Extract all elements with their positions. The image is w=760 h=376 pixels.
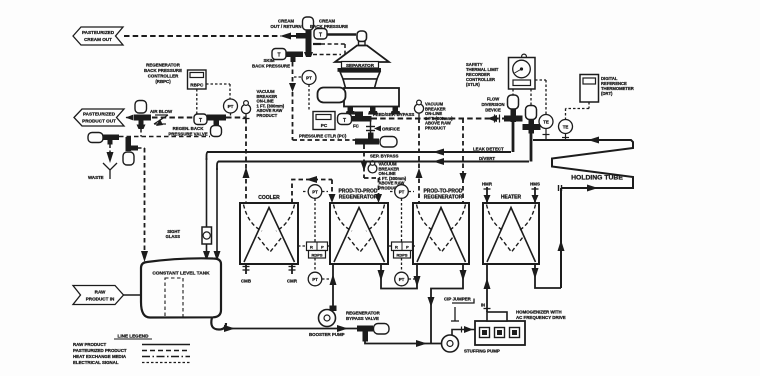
svg-text:HEATER: HEATER — [501, 195, 522, 201]
instrument PT (skim pressure) — [294, 71, 316, 112]
instrument PT bottom (regen1/regen2) — [395, 258, 415, 286]
svg-text:REGENERATOR: REGENERATOR — [346, 311, 381, 316]
funnel waste — [103, 163, 117, 179]
homogenizer — [475, 312, 525, 345]
wire stuffing pump to homogenizer — [452, 326, 475, 336]
svg-text:REGENERATOR: REGENERATOR — [339, 195, 378, 201]
svg-text:BACK PRESSURE: BACK PRESSURE — [252, 64, 290, 69]
svg-text:PRESSURE CTLR (PC): PRESSURE CTLR (PC) — [299, 134, 347, 139]
wire bypass to stuffing pump — [365, 340, 441, 347]
label SKIM BACK PRESSURE — [252, 58, 290, 69]
svg-text:AC FREQUENCY DRIVE: AC FREQUENCY DRIVE — [516, 315, 566, 320]
valve waste 2 (divert to tank) — [123, 137, 138, 165]
wire cooler top-right to regen1 top-left — [292, 176, 336, 203]
wire skim line down (to sep bypass) — [289, 62, 355, 140]
holding tube — [533, 137, 633, 192]
controller STLR box — [509, 54, 536, 89]
svg-text:HMS: HMS — [530, 182, 540, 187]
valve cream back pressure — [296, 17, 314, 57]
svg-text:R: R — [395, 245, 398, 250]
svg-text:HOLDING TUBE: HOLDING TUBE — [571, 175, 623, 182]
wire raw product into tank — [124, 294, 142, 296]
svg-text:PASTEURIZED: PASTEURIZED — [82, 30, 115, 35]
svg-text:CMB: CMB — [241, 279, 251, 284]
svg-text:CONTROLLER: CONTROLLER — [148, 74, 179, 79]
svg-text:RBPC: RBPC — [190, 83, 204, 88]
label CREAM BACK PRESSURE — [310, 19, 348, 30]
label DIGITAL REFERENCE THERMOMETER (DRT) — [601, 76, 634, 96]
wire pasteurized down to regen2 top-left — [416, 119, 423, 203]
separator cone — [335, 46, 389, 63]
svg-text:CONSTANT LEVEL TANK: CONSTANT LEVEL TANK — [152, 271, 210, 277]
svg-text:T: T — [343, 118, 346, 124]
wire cream valve to separator cap — [327, 33, 356, 36]
svg-text:T: T — [319, 33, 322, 39]
svg-text:R: R — [310, 245, 313, 250]
sensor tag T (cream) — [314, 29, 327, 40]
svg-text:WASTE: WASTE — [88, 175, 104, 180]
legend LINE LEGEND — [73, 334, 190, 366]
label VACUUM BREAKER ON-LINE (middle) — [379, 162, 407, 191]
svg-text:PRODUCT: PRODUCT — [257, 113, 278, 118]
sight glass — [202, 227, 212, 244]
svg-text:PT: PT — [399, 190, 405, 195]
wire pasteurized cream line — [124, 33, 297, 40]
instrument TE 2 — [559, 120, 573, 140]
instrument PT top (regen1/regen2) — [390, 185, 414, 242]
heat exchanger COOLER — [240, 203, 298, 264]
svg-text:BACK PRESSURE: BACK PRESSURE — [144, 68, 182, 73]
svg-text:SEP. BYPASS: SEP. BYPASS — [370, 154, 398, 159]
wire tank outlet to booster pump — [224, 325, 358, 332]
valve FDD divert — [504, 95, 523, 122]
node CIP jumper stub — [451, 299, 474, 322]
svg-text:(RBPC): (RBPC) — [155, 79, 171, 84]
svg-text:DEVICE: DEVICE — [485, 108, 501, 113]
instrument TE 1 — [539, 115, 553, 140]
label VACUUM BREAKER ON-LINE (right) — [425, 102, 453, 131]
svg-text:BYPASS VALVE: BYPASS VALVE — [346, 316, 379, 321]
svg-text:DIVERSION: DIVERSION — [481, 102, 504, 107]
svg-text:STUFFING PUMP: STUFFING PUMP — [464, 349, 500, 354]
svg-text:TE: TE — [543, 120, 549, 125]
tank constant level — [141, 258, 226, 329]
banner PASTEURIZED PRODUCT OUT — [74, 109, 124, 126]
svg-text:TE: TE — [563, 125, 569, 130]
node HMR stub — [482, 182, 493, 204]
wire FDD divert drop — [512, 121, 515, 152]
controller PC box — [313, 112, 335, 130]
vacuum breaker (sep bypass) — [368, 161, 377, 173]
separator motor — [318, 88, 346, 103]
label FLOW DIVERSION DEVICE — [481, 97, 504, 113]
wire cooler top-left riser (pasteurized out) — [243, 119, 250, 203]
valve regenerator bypass — [357, 324, 389, 342]
banner RAW PRODUCT IN — [73, 286, 124, 305]
wire cream return dashed into separator — [313, 44, 345, 58]
separator frame — [344, 88, 399, 107]
svg-text:PRODUCT OUT: PRODUCT OUT — [82, 119, 116, 124]
svg-text:D/VERT: D/VERT — [479, 156, 495, 161]
wire heater outlet to holding tube — [558, 188, 565, 288]
svg-text:CMR: CMR — [287, 279, 298, 284]
svg-text:PT: PT — [312, 277, 318, 282]
valve regen back pressure — [207, 115, 226, 137]
svg-text:HEAT EXCHANGE MEDIA: HEAT EXCHANGE MEDIA — [73, 354, 127, 359]
wire sep bypass down to regenerator — [361, 145, 383, 204]
svg-text:GLASS: GLASS — [166, 234, 181, 239]
heat exchanger HEATER — [483, 203, 539, 264]
svg-text:P: P — [321, 245, 324, 250]
label REGEN. BACK PRESSURE VALVE — [168, 126, 207, 137]
label REGENERATOR BYPASS VALVE — [346, 311, 381, 322]
svg-text:REGENERATOR: REGENERATOR — [146, 63, 181, 68]
pump booster — [319, 310, 336, 327]
svg-text:BACK PRESSURE: BACK PRESSURE — [310, 24, 348, 29]
node CMR stub — [287, 264, 298, 284]
separator flange band — [338, 68, 382, 72]
wire waste drain with arrow — [107, 145, 114, 164]
wire divert line — [217, 158, 529, 170]
valve skim back pressure tee — [286, 52, 303, 63]
label SIGHT GLASS — [166, 229, 181, 239]
svg-text:PT: PT — [228, 104, 234, 109]
wire heater bottom-left from homogenizer — [481, 264, 491, 312]
heat exchanger PROD-TO-PROD REGENERATOR 2 — [413, 203, 469, 264]
svg-text:P: P — [406, 245, 409, 250]
wire regen1 bottom-left to booster pump — [330, 264, 337, 311]
svg-text:PRODUCT: PRODUCT — [425, 126, 446, 131]
svg-text:(DRT): (DRT) — [601, 91, 613, 96]
wire pasteurized down to regen2 top-right — [460, 119, 467, 203]
svg-text:PASTEURIZED: PASTEURIZED — [83, 112, 116, 117]
svg-text:FC: FC — [353, 124, 360, 129]
svg-text:PASTEURIZED PRODUCT: PASTEURIZED PRODUCT — [73, 348, 127, 353]
svg-text:BOOSTER PUMP: BOOSTER PUMP — [309, 332, 345, 337]
wire RBPC electrical signals — [197, 84, 230, 114]
svg-text:PT: PT — [306, 76, 312, 81]
svg-text:REGENERATOR: REGENERATOR — [424, 195, 463, 201]
svg-text:REGEN. BACK: REGEN. BACK — [173, 126, 205, 131]
meter DRT box — [580, 75, 599, 103]
instrument PT bottom (cooler/regen1) — [308, 258, 330, 286]
svg-text:RDPS: RDPS — [396, 253, 407, 258]
valve waste 1 — [88, 133, 119, 145]
svg-text:COOLER: COOLER — [258, 195, 280, 201]
valve FDD forward — [523, 106, 541, 134]
label HOMOGENIZER WITH AC FREQUENCY DRIVE — [516, 310, 566, 321]
svg-text:SEPARATOR: SEPARATOR — [346, 63, 375, 68]
label PROD-TO-PROD REGENERATOR 1 — [338, 189, 377, 201]
valve sep bypass — [355, 133, 397, 148]
svg-text:ELECTRICAL SIGNAL: ELECTRICAL SIGNAL — [73, 360, 119, 365]
switch RDPS 2 — [389, 242, 415, 258]
svg-text:AIR BLOW: AIR BLOW — [150, 109, 173, 114]
valve air blow — [134, 101, 151, 130]
svg-text:RAW: RAW — [95, 290, 106, 295]
wire waste2 to constant level tank — [138, 148, 148, 262]
wire leak detect drop to sight glass — [203, 158, 210, 261]
separator shoulders and body — [340, 72, 380, 88]
svg-text:IN: IN — [481, 303, 485, 308]
instrument PT (regen back pressure) — [224, 99, 238, 119]
svg-text:PT: PT — [399, 277, 405, 282]
vacuum breaker (pasteurized line) — [241, 101, 250, 119]
sensor tag T (regen back pressure valve) — [194, 114, 207, 125]
svg-text:T: T — [199, 118, 202, 124]
orifice — [366, 122, 381, 139]
label PROD-TO-PROD REGENERATOR 2 — [423, 189, 462, 201]
svg-text:LEAK DETECT: LEAK DETECT — [473, 147, 504, 152]
wire heater bottom-right outlet — [532, 264, 562, 288]
svg-text:ORIFICE: ORIFICE — [382, 127, 400, 132]
separator label box — [342, 62, 379, 69]
node HMS stub — [530, 182, 540, 204]
svg-text:PT: PT — [312, 190, 318, 195]
label AIR BLOW with zigzag — [150, 109, 173, 126]
banner PASTEURIZED CREAM OUT — [73, 27, 123, 45]
svg-text:RDPS: RDPS — [311, 253, 322, 258]
svg-text:PRODUCT IN: PRODUCT IN — [86, 297, 115, 302]
svg-text:FLOW: FLOW — [487, 97, 499, 102]
svg-text:FEED/SEP. BYPASS: FEED/SEP. BYPASS — [373, 112, 414, 117]
label CREAM OUT / RETURN — [270, 19, 301, 30]
svg-text:CIP JUMPER: CIP JUMPER — [444, 297, 472, 302]
label VACUUM BREAKER ON-LINE (left) — [257, 89, 285, 118]
separator cap — [357, 31, 367, 46]
wire FDD forward drop — [530, 130, 533, 162]
controller RBPC box — [188, 70, 207, 89]
separator legs — [346, 107, 401, 115]
wire pasteurized product out line — [126, 115, 247, 121]
wire skim dashed to separator — [313, 54, 341, 56]
sensor tag T (skim) — [272, 49, 286, 60]
svg-text:RAW PRODUCT: RAW PRODUCT — [73, 342, 106, 347]
svg-text:LINE LEGEND: LINE LEGEND — [118, 334, 150, 339]
wire feed/sep bypass dashed line — [372, 115, 507, 123]
svg-text:CREAM OUT: CREAM OUT — [84, 37, 112, 42]
valve FC feed — [352, 112, 372, 129]
sensor tag T (FC valve) — [338, 114, 352, 125]
wire air blow valve drain dashed — [119, 129, 210, 137]
vacuum breaker (feed line) — [414, 100, 423, 118]
wire divert drop to tank — [214, 168, 221, 261]
svg-text:T: T — [277, 53, 280, 59]
pump stuffing — [442, 335, 459, 352]
svg-text:CREAM: CREAM — [278, 19, 294, 24]
node CMB stub — [241, 264, 251, 284]
wire leak detect line — [207, 149, 512, 161]
svg-text:OUT / RETURN: OUT / RETURN — [270, 24, 301, 29]
svg-text:HOMOGENIZER WITH: HOMOGENIZER WITH — [516, 310, 562, 315]
label SAFETY THERMAL LIMIT RECORDER CONTROLLER (STLR) — [466, 62, 499, 87]
wire STLR electrical to valves — [513, 80, 546, 114]
svg-text:(STLR): (STLR) — [466, 82, 480, 87]
wire DRT electrical to TE2 — [566, 102, 590, 119]
wire regen2 bottom-right to stuffing pump — [428, 264, 467, 343]
svg-text:CREAM: CREAM — [319, 19, 335, 24]
wire regen1 bottom-right to regen2 bottom-left — [378, 264, 421, 289]
heat exchanger PROD-TO-PROD REGENERATOR 1 — [330, 203, 388, 264]
svg-text:HMR: HMR — [482, 182, 493, 187]
svg-text:PC: PC — [321, 123, 328, 128]
switch RDPS 1 — [298, 242, 330, 258]
instrument PT top (cooler/regen1) — [303, 185, 328, 242]
label REGENERATOR BACK PRESSURE CONTROLLER (RBPC) — [144, 63, 182, 85]
